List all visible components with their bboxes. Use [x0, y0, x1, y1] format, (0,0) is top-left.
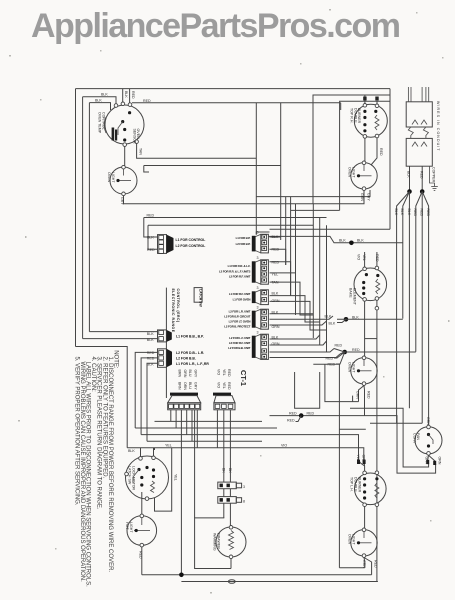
wire: burner2 bottom-left to oven light4: [364, 507, 366, 529]
conduit junction box lower: [406, 138, 432, 166]
oven light4 terminal top: [362, 528, 366, 532]
wire: plug2 pin drops: [216, 410, 218, 448]
thermostat terminal top-mid: [121, 102, 125, 106]
wire: rect Q inner vertical: [352, 396, 354, 402]
svg-text:BRN: BRN: [178, 370, 182, 378]
svg-text:L1 FOR B.P.: L1 FOR B.P.: [236, 236, 251, 240]
svg-text:SENSOR: SENSOR: [133, 129, 137, 145]
oven light3 terminal bottom: [362, 382, 366, 386]
svg-text:OVEN TEMP: OVEN TEMP: [98, 112, 102, 134]
connector C pins: [159, 350, 164, 354]
svg-text:GRY: GRY: [193, 370, 197, 378]
wire: big rect left edge: [338, 364, 340, 568]
connector G shroud wedge: [252, 311, 256, 328]
wire: RED fan below junction: [340, 352, 345, 354]
svg-text:BLK: BLK: [339, 239, 346, 243]
wire: burner riser left: [364, 95, 366, 104]
burner terminal bottom-right: [375, 134, 379, 138]
latch terminal top-right: [152, 456, 156, 460]
svg-text:HOT: HOT: [125, 522, 129, 530]
svg-text:L2 FOR D.B.- L.R.: L2 FOR D.B.- L.R.: [176, 351, 204, 355]
junction arrow on bottom bus: [179, 573, 184, 578]
wire: v1 link to connector D pin: [256, 232, 269, 235]
svg-text:BLK: BLK: [147, 236, 154, 240]
svg-text:CT-1: CT-1: [239, 370, 248, 386]
svg-text:BURNER: BURNER: [357, 477, 361, 493]
connector E pin: [262, 261, 267, 265]
wire: E pins to v4 v5: [270, 262, 291, 296]
svg-text:L1 FOR R.F. UNIT: L1 FOR R.F. UNIT: [229, 292, 251, 296]
thermostat terminal bottom: [123, 143, 127, 147]
plug2 header strip: [213, 393, 231, 396]
wire: plug1 pin drops: [170, 410, 172, 422]
burner terminal top-right: [375, 104, 379, 108]
svg-text:RED: RED: [413, 209, 417, 217]
wire: branch into RED junction: [296, 416, 302, 422]
connector E pin: [262, 272, 267, 276]
svg-text:BAKE: BAKE: [349, 288, 353, 298]
svg-text:RED: RED: [131, 91, 135, 99]
svg-text:BLK: BLK: [352, 315, 359, 319]
svg-text:BLK: BLK: [95, 99, 102, 103]
svg-text:OVEN: OVEN: [136, 129, 140, 140]
oven light3 filament: [357, 370, 372, 372]
svg-text:L1 FOR R.R. & L.F.: L1 FOR R.R. & L.F.: [228, 264, 251, 268]
wire: BLK riser from thermostat to top border: [122, 89, 124, 104]
svg-text:GRY: GRY: [193, 382, 197, 390]
connector H shroud outline: [255, 334, 260, 359]
bake contact dots: [365, 273, 368, 276]
svg-text:AppliancePartsPros.com: AppliancePartsPros.com: [31, 7, 400, 45]
svg-text:DRAWER: DRAWER: [216, 533, 220, 549]
svg-text:RED: RED: [352, 348, 360, 352]
wire: loop rect right of latch: [154, 448, 156, 450]
connector D pin: [262, 246, 267, 250]
wire: bake right lead continues to bottom frame: [376, 310, 378, 581]
wire: long bus y434.6: [141, 435, 358, 460]
wire: C pin3 loop left down to bus: [147, 363, 158, 441]
thermostat terminal top-right: [128, 103, 132, 107]
conduit zigzag link right: [423, 127, 428, 138]
svg-text:RED: RED: [138, 551, 142, 559]
svg-text:BLK: BLK: [128, 449, 135, 453]
wire: mid loop bottom run to connector pin: [83, 338, 158, 340]
svg-text:L2 FOR B.B.: L2 FOR B.B.: [176, 357, 196, 361]
wire: riser into bake right: [376, 252, 378, 266]
svg-text:BLK: BLK: [147, 332, 154, 336]
oven light terminal bottom: [122, 192, 126, 196]
svg-text:TOP L.H.: TOP L.H.: [350, 477, 354, 492]
wire: light3 bottom leads: [359, 386, 365, 402]
oven light4 dot: [357, 541, 360, 544]
connector D shroud wedge: [252, 236, 256, 252]
svg-text:ORN: ORN: [438, 457, 442, 465]
wire: D RED pin to v3: [270, 249, 286, 265]
svg-text:OVEN: OVEN: [348, 167, 352, 178]
thermostat contact dot: [121, 120, 124, 123]
splice oval on lower bus: [228, 580, 235, 584]
svg-text:VIO: VIO: [217, 382, 221, 388]
wire: RED drop from conduit: [421, 166, 423, 191]
svg-text:LIGHT: LIGHT: [351, 362, 355, 373]
wire: C pin2 loop left down to bus: [141, 358, 157, 435]
oven light2 terminal top: [362, 161, 366, 165]
svg-text:RED: RED: [307, 411, 315, 415]
wire: burner riser right: [376, 101, 378, 104]
ground symbol: [431, 187, 438, 191]
svg-text:YEL: YEL: [174, 474, 178, 481]
svg-text:VIO: VIO: [217, 369, 221, 375]
svg-text:RED: RED: [272, 260, 280, 264]
connector D body: [261, 234, 269, 253]
wire: RED feed from thermostat to right bus: [132, 102, 341, 104]
wire: warmer bottom to loop: [230, 559, 232, 569]
svg-text:RED: RED: [147, 214, 155, 218]
burner contact dot: [363, 116, 366, 119]
svg-text:DOUBLE: DOUBLE: [354, 477, 358, 492]
warmer terminal top: [229, 526, 233, 530]
latch terminal top-left: [139, 457, 143, 461]
wire: vertical bundle v2: [280, 103, 282, 240]
svg-text:LIGHT: LIGHT: [351, 534, 355, 545]
conduit zigzag link left: [408, 127, 413, 138]
svg-text:YEL: YEL: [362, 254, 366, 261]
connector H pin: [262, 355, 267, 359]
connector F pin: [262, 291, 267, 295]
burner2 terminal top-right: [375, 471, 379, 475]
wire: vertical bundle v4: [290, 197, 292, 296]
wire: RED riser from thermostat to top border: [129, 89, 131, 104]
wire: big rect top stub: [339, 428, 365, 430]
hot light filament: [134, 530, 150, 532]
latch motor / door lock switch body: [126, 456, 169, 499]
latch motor coil squiggle: [151, 481, 155, 493]
svg-text:OVEN: OVEN: [348, 534, 352, 545]
wire: riser to latch terminal 1: [140, 448, 142, 458]
burner2 terminal bottom-left: [363, 503, 367, 507]
svg-text:RED: RED: [426, 209, 430, 217]
wire: BLK drop to thermostat terminal: [83, 97, 116, 104]
connector G pin: [262, 310, 267, 314]
wire: bus y225: [148, 225, 158, 249]
burner contact dot: [363, 123, 366, 126]
conduit junction box upper: [406, 102, 432, 127]
wire: RED fan 1: [416, 192, 422, 352]
svg-text:YEL: YEL: [272, 273, 279, 277]
connector G pin: [262, 323, 267, 327]
oven light 3 body: [351, 358, 377, 384]
wire: long bus y421: [155, 420, 263, 422]
svg-text:LIGHT: LIGHT: [129, 522, 133, 533]
warmer element body: [216, 527, 246, 557]
wire: light2 bottom drops: [363, 191, 365, 204]
oven light2 filament: [357, 175, 372, 177]
wire: bake lead down to light3: [364, 319, 366, 357]
svg-text:5. VERIFY PROPER OPERATION AFT: 5. VERIFY PROPER OPERATION AFTER SERVICI…: [73, 357, 79, 506]
connector D pin: [262, 235, 267, 239]
svg-text:L1 FOR B.B., B.P.: L1 FOR B.B., B.P.: [176, 335, 204, 339]
svg-text:BLK: BLK: [101, 93, 108, 97]
hot light stem: [141, 518, 143, 525]
oven light3 terminal top: [362, 356, 366, 360]
connector E pin: [262, 266, 267, 270]
warmer coil squiggle vertical: [229, 531, 234, 550]
svg-text:BLK: BLK: [124, 91, 128, 98]
svg-text:L1 FOR OVEN: L1 FOR OVEN: [233, 297, 251, 301]
svg-text:FAN: FAN: [416, 433, 420, 440]
wire: vent fan drop from RED fan3 to top terminal: [428, 425, 430, 428]
oven light 4 body: [351, 530, 377, 556]
svg-text:L2 FOR B.B. UNIT: L2 FOR B.B. UNIT: [228, 346, 250, 350]
crimp mark left: [363, 97, 366, 101]
svg-text:BLK: BLK: [400, 209, 404, 216]
wire: H pins links: [270, 335, 320, 339]
wire: frame right vertical: [389, 89, 391, 230]
svg-text:L2 FOR B. PROTECT: L2 FOR B. PROTECT: [224, 324, 250, 328]
burner contact dot: [363, 129, 366, 132]
vent terminal bottom: [427, 452, 431, 456]
connector A pins: [159, 235, 164, 239]
wire: outer loop bottom run to latch circuit: [76, 347, 128, 448]
svg-text:GRY: GRY: [120, 197, 124, 205]
connector C shroud: [167, 349, 173, 368]
fuse box 2 tab: [236, 498, 241, 503]
svg-text:L2 FOR B.P. CIRCUIT: L2 FOR B.P. CIRCUIT: [224, 315, 250, 319]
connector E body: [261, 260, 269, 284]
svg-text:BLK: BLK: [272, 235, 279, 239]
svg-text:L1 FOR CONTROL: L1 FOR CONTROL: [176, 238, 206, 242]
lock switch box: [194, 288, 202, 303]
bake terminal bottom-right: [375, 297, 379, 301]
oven light filament line: [117, 180, 132, 182]
top double burner body: [354, 104, 387, 137]
wire: second branch to right: [144, 165, 281, 167]
svg-text:TOP R.H.: TOP R.H.: [350, 108, 354, 123]
svg-text:BLK: BLK: [272, 336, 279, 340]
connector A shroud: [167, 235, 174, 254]
svg-text:3: 3: [257, 286, 259, 290]
wire: oven light1 down then right long bus: [124, 196, 365, 204]
hot light dot: [135, 529, 138, 532]
fuse 1 inner marks: [220, 484, 223, 488]
svg-text:OVEN: OVEN: [107, 172, 111, 183]
svg-text:RED: RED: [227, 369, 231, 377]
fuse box 1: [218, 482, 237, 489]
svg-text:RED: RED: [227, 382, 231, 390]
wire: BLK fan 1: [397, 192, 410, 424]
burner2 contact dots: [363, 477, 366, 480]
junction dot RED feed: [420, 189, 425, 194]
svg-text:OVEN: OVEN: [348, 362, 352, 373]
connector B shroud: [167, 330, 172, 342]
connector D shroud outline: [255, 234, 260, 253]
junction: BLK mid-right: [344, 317, 349, 322]
wire: inner box 2 for double burner: [340, 101, 390, 210]
thermostat contact bar 2: [115, 130, 117, 141]
fuse box 2: [218, 497, 237, 504]
burner contact dot: [374, 110, 377, 113]
wire: TAN branch from thermostat bottom-right: [137, 144, 257, 159]
svg-text:TAN: TAN: [139, 148, 143, 155]
svg-text:RED: RED: [419, 171, 423, 179]
vent terminal top: [427, 425, 431, 429]
bottom double burner body: [355, 473, 387, 505]
burner terminal top-left: [363, 104, 367, 108]
svg-text:L2 FOR L.F. UNIT: L2 FOR L.F. UNIT: [229, 336, 250, 340]
connector C body: [158, 349, 167, 368]
svg-text:YEL: YEL: [222, 369, 226, 376]
wire: fuse2 down to warmer loop: [223, 503, 225, 518]
hot light body: [127, 516, 157, 546]
junction dot RED bus: [299, 413, 304, 418]
bake terminal top-left: [363, 267, 367, 271]
svg-text:3: 3: [257, 231, 259, 235]
wire: RED drop at x340: [340, 103, 342, 110]
latch contact dots: [137, 468, 140, 471]
wire: vent bottom leads to loops: [427, 455, 430, 463]
wire: left inner nested vertical: [88, 103, 90, 332]
svg-text:BLK: BLK: [407, 171, 411, 178]
wire: RED fan 3: [422, 192, 428, 427]
oven light2 dot: [357, 174, 360, 177]
wire: BLK fan 3: [408, 192, 410, 409]
warmer terminal bottom: [229, 555, 233, 559]
junction dot on BLK feed: [349, 241, 354, 246]
svg-text:BLK: BLK: [325, 315, 332, 319]
wire: BLK fan 2: [403, 192, 410, 319]
connector B pins: [159, 330, 164, 334]
svg-text:BLK: BLK: [329, 322, 336, 326]
wire: bus y210: [291, 209, 340, 211]
wire: vertical bundle v8: [326, 225, 328, 352]
connector F shroud wedge: [252, 291, 256, 303]
thermostat terminal top-left: [114, 104, 118, 108]
svg-text:BLK: BLK: [394, 209, 398, 216]
svg-text:GRY: GRY: [367, 193, 371, 201]
vent inner lever: [429, 435, 434, 445]
connector E shroud outline: [255, 260, 260, 284]
EOC left structural line: [165, 288, 167, 398]
oven thermostat switch body: [105, 105, 144, 144]
wire: short link down: [144, 166, 149, 173]
svg-text:RED: RED: [287, 419, 295, 423]
svg-text:YEL: YEL: [165, 444, 172, 448]
wire: bus y217.5: [144, 218, 158, 238]
wire: YLW lead to burner top-left: [359, 460, 365, 471]
wire: vertical bundle v7: [319, 218, 321, 346]
oven light2 stem: [363, 165, 365, 172]
wire: F pins links: [270, 296, 320, 322]
connector G shroud outline: [255, 309, 260, 329]
connector H pin: [262, 349, 267, 353]
wire: latch bottom to hot light: [141, 492, 143, 514]
thermostat inner lever: [118, 122, 123, 135]
plug2 pin row: [214, 403, 235, 410]
svg-text:RED: RED: [374, 560, 378, 568]
fuse box 1 tab: [236, 483, 241, 488]
svg-text:L2 FOR R.F. UNIT: L2 FOR R.F. UNIT: [229, 275, 251, 279]
wire: BLK drop from conduit: [409, 166, 411, 191]
wire: burner bottom-left to oven light2: [364, 138, 366, 162]
wire: inner vent loop: [350, 408, 429, 467]
latch inner lever: [133, 470, 139, 484]
svg-text:CONTROL (ERC): CONTROL (ERC): [176, 289, 180, 323]
svg-text:3: 3: [243, 485, 245, 489]
crimp marks burner top leads: [357, 460, 360, 464]
svg-text:GRN: GRN: [272, 299, 280, 303]
bake terminal top-right: [375, 266, 379, 270]
terminal below bake right: [375, 306, 379, 310]
wire: vertical bundle v1: [255, 103, 257, 235]
svg-text:VIO: VIO: [357, 254, 361, 260]
wire: riser into bake left: [364, 252, 366, 267]
wire: copper ground stub: [430, 166, 435, 186]
svg-text:L2 FOR R.F. UNIT: L2 FOR R.F. UNIT: [229, 341, 251, 345]
latch terminal bottom: [145, 497, 149, 501]
svg-text:RED: RED: [335, 344, 343, 348]
svg-text:L2 FOR L.R. UNIT: L2 FOR L.R. UNIT: [229, 309, 251, 313]
wire: light2 second drop: [256, 190, 370, 197]
thermostat terminal bottom-right: [135, 140, 139, 144]
svg-text:L1 FOR L.R., L.F.,RR: L1 FOR L.R., L.F.,RR: [176, 362, 209, 366]
hot light terminal bottom: [140, 543, 144, 547]
wire: bottom bus line mid: [142, 574, 372, 576]
crimp marks on vent leads: [426, 460, 429, 464]
wire: bus y423.3 link: [370, 422, 422, 424]
wire: v2 link to connector D pin: [270, 236, 281, 238]
vent contact dots: [427, 433, 430, 436]
wire: BLK feed from connector D to conduit BLK drop: [268, 236, 402, 242]
svg-text:ELEMENT: ELEMENT: [352, 288, 356, 306]
svg-text:GRN: GRN: [272, 325, 280, 329]
junction dot BLK feed: [407, 189, 412, 194]
conduit zigzag inside top: [412, 120, 418, 125]
thermostat contact dot: [123, 128, 126, 131]
svg-text:L2 FOR CONTROL: L2 FOR CONTROL: [176, 244, 206, 248]
wire: vertical bundle v5: [295, 204, 297, 315]
connector B body: [158, 330, 167, 342]
wire: frame top border L1: [76, 88, 391, 90]
wire: inner box top for double burner (left leg): [313, 95, 390, 204]
burner terminal bottom-left: [363, 135, 367, 139]
plug2 pins: [215, 404, 220, 408]
svg-text:RED: RED: [366, 391, 370, 399]
plug2 trapezoid: [214, 396, 235, 403]
thermostat left arc detail: [104, 117, 106, 133]
fuse 2 inner marks: [220, 498, 223, 502]
oven light terminal top: [122, 165, 126, 169]
plug1 pins: [169, 404, 174, 408]
svg-text:CONV: CONV: [412, 433, 416, 444]
wire: RED junction feeds: [334, 349, 416, 353]
bake element squiggle: [376, 279, 380, 294]
burner element squiggle: [375, 115, 379, 130]
wire: vertical bundle v3: [285, 197, 287, 265]
wire: plug drop joining warmer loop: [194, 410, 196, 518]
conduit riser wires: [407, 87, 409, 102]
bake terminal bottom-left: [363, 298, 367, 302]
connector E pin: [262, 278, 267, 282]
wire: riser to latch terminal 2: [153, 448, 155, 457]
svg-text:COPPER: COPPER: [432, 167, 436, 183]
connector H pin: [262, 335, 267, 339]
plug1 header strip: [170, 393, 198, 396]
wire: light4 bottom leads: [363, 558, 366, 568]
svg-text:GRN: GRN: [426, 417, 430, 425]
svg-text:L2 FOR R.R. & L.F. UNITS: L2 FOR R.R. & L.F. UNITS: [219, 269, 250, 273]
burner contact dot: [363, 110, 366, 113]
svg-text:RED: RED: [147, 351, 155, 355]
